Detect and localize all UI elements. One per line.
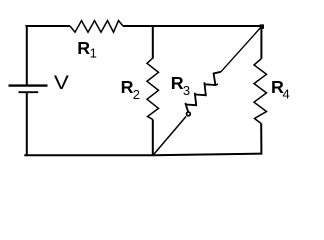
svg-text:V: V <box>54 72 69 94</box>
wire: top side (middle segment, R1 to R2 branch and on to top-right corner) <box>123 25 262 27</box>
wire: left side lower (battery down to bottom-left corner) <box>26 92 28 156</box>
wire: bottom side (bottom-left corner to bottom-right corner) <box>24 154 261 156</box>
resistor R2 <box>121 58 159 120</box>
wire: R2 branch lower (R2 down to bottom node) <box>152 120 154 156</box>
wire: left side upper (top-left corner down to battery) <box>26 25 28 86</box>
wire: R3 branch lower diagonal (bottom node up to R3) <box>153 116 186 155</box>
wire: R3 branch upper diagonal (R3 up to top-right corner) <box>221 26 262 72</box>
svg-text:R: R <box>77 38 90 58</box>
wire: right side upper (top-right corner down to R4) <box>260 26 262 59</box>
resistor R1 <box>70 21 123 61</box>
resistor R3 <box>171 72 221 112</box>
svg-text:1: 1 <box>90 46 97 61</box>
wire: right side lower (R4 down to bottom-right corner) <box>260 124 262 155</box>
battery V <box>9 72 69 94</box>
svg-text:R: R <box>121 77 134 97</box>
svg-text:4: 4 <box>283 87 290 102</box>
wire: R2 branch upper (top wire down to R2) <box>152 25 154 59</box>
node: small loop at lower end of R3 <box>187 112 191 116</box>
svg-text:2: 2 <box>133 87 140 102</box>
node: junction dot at top-right corner <box>260 24 264 28</box>
resistor R4 <box>254 59 290 124</box>
svg-text:3: 3 <box>183 83 190 98</box>
wire: top side (left segment, left corner to R1) <box>25 25 70 27</box>
svg-text:R: R <box>171 73 184 93</box>
